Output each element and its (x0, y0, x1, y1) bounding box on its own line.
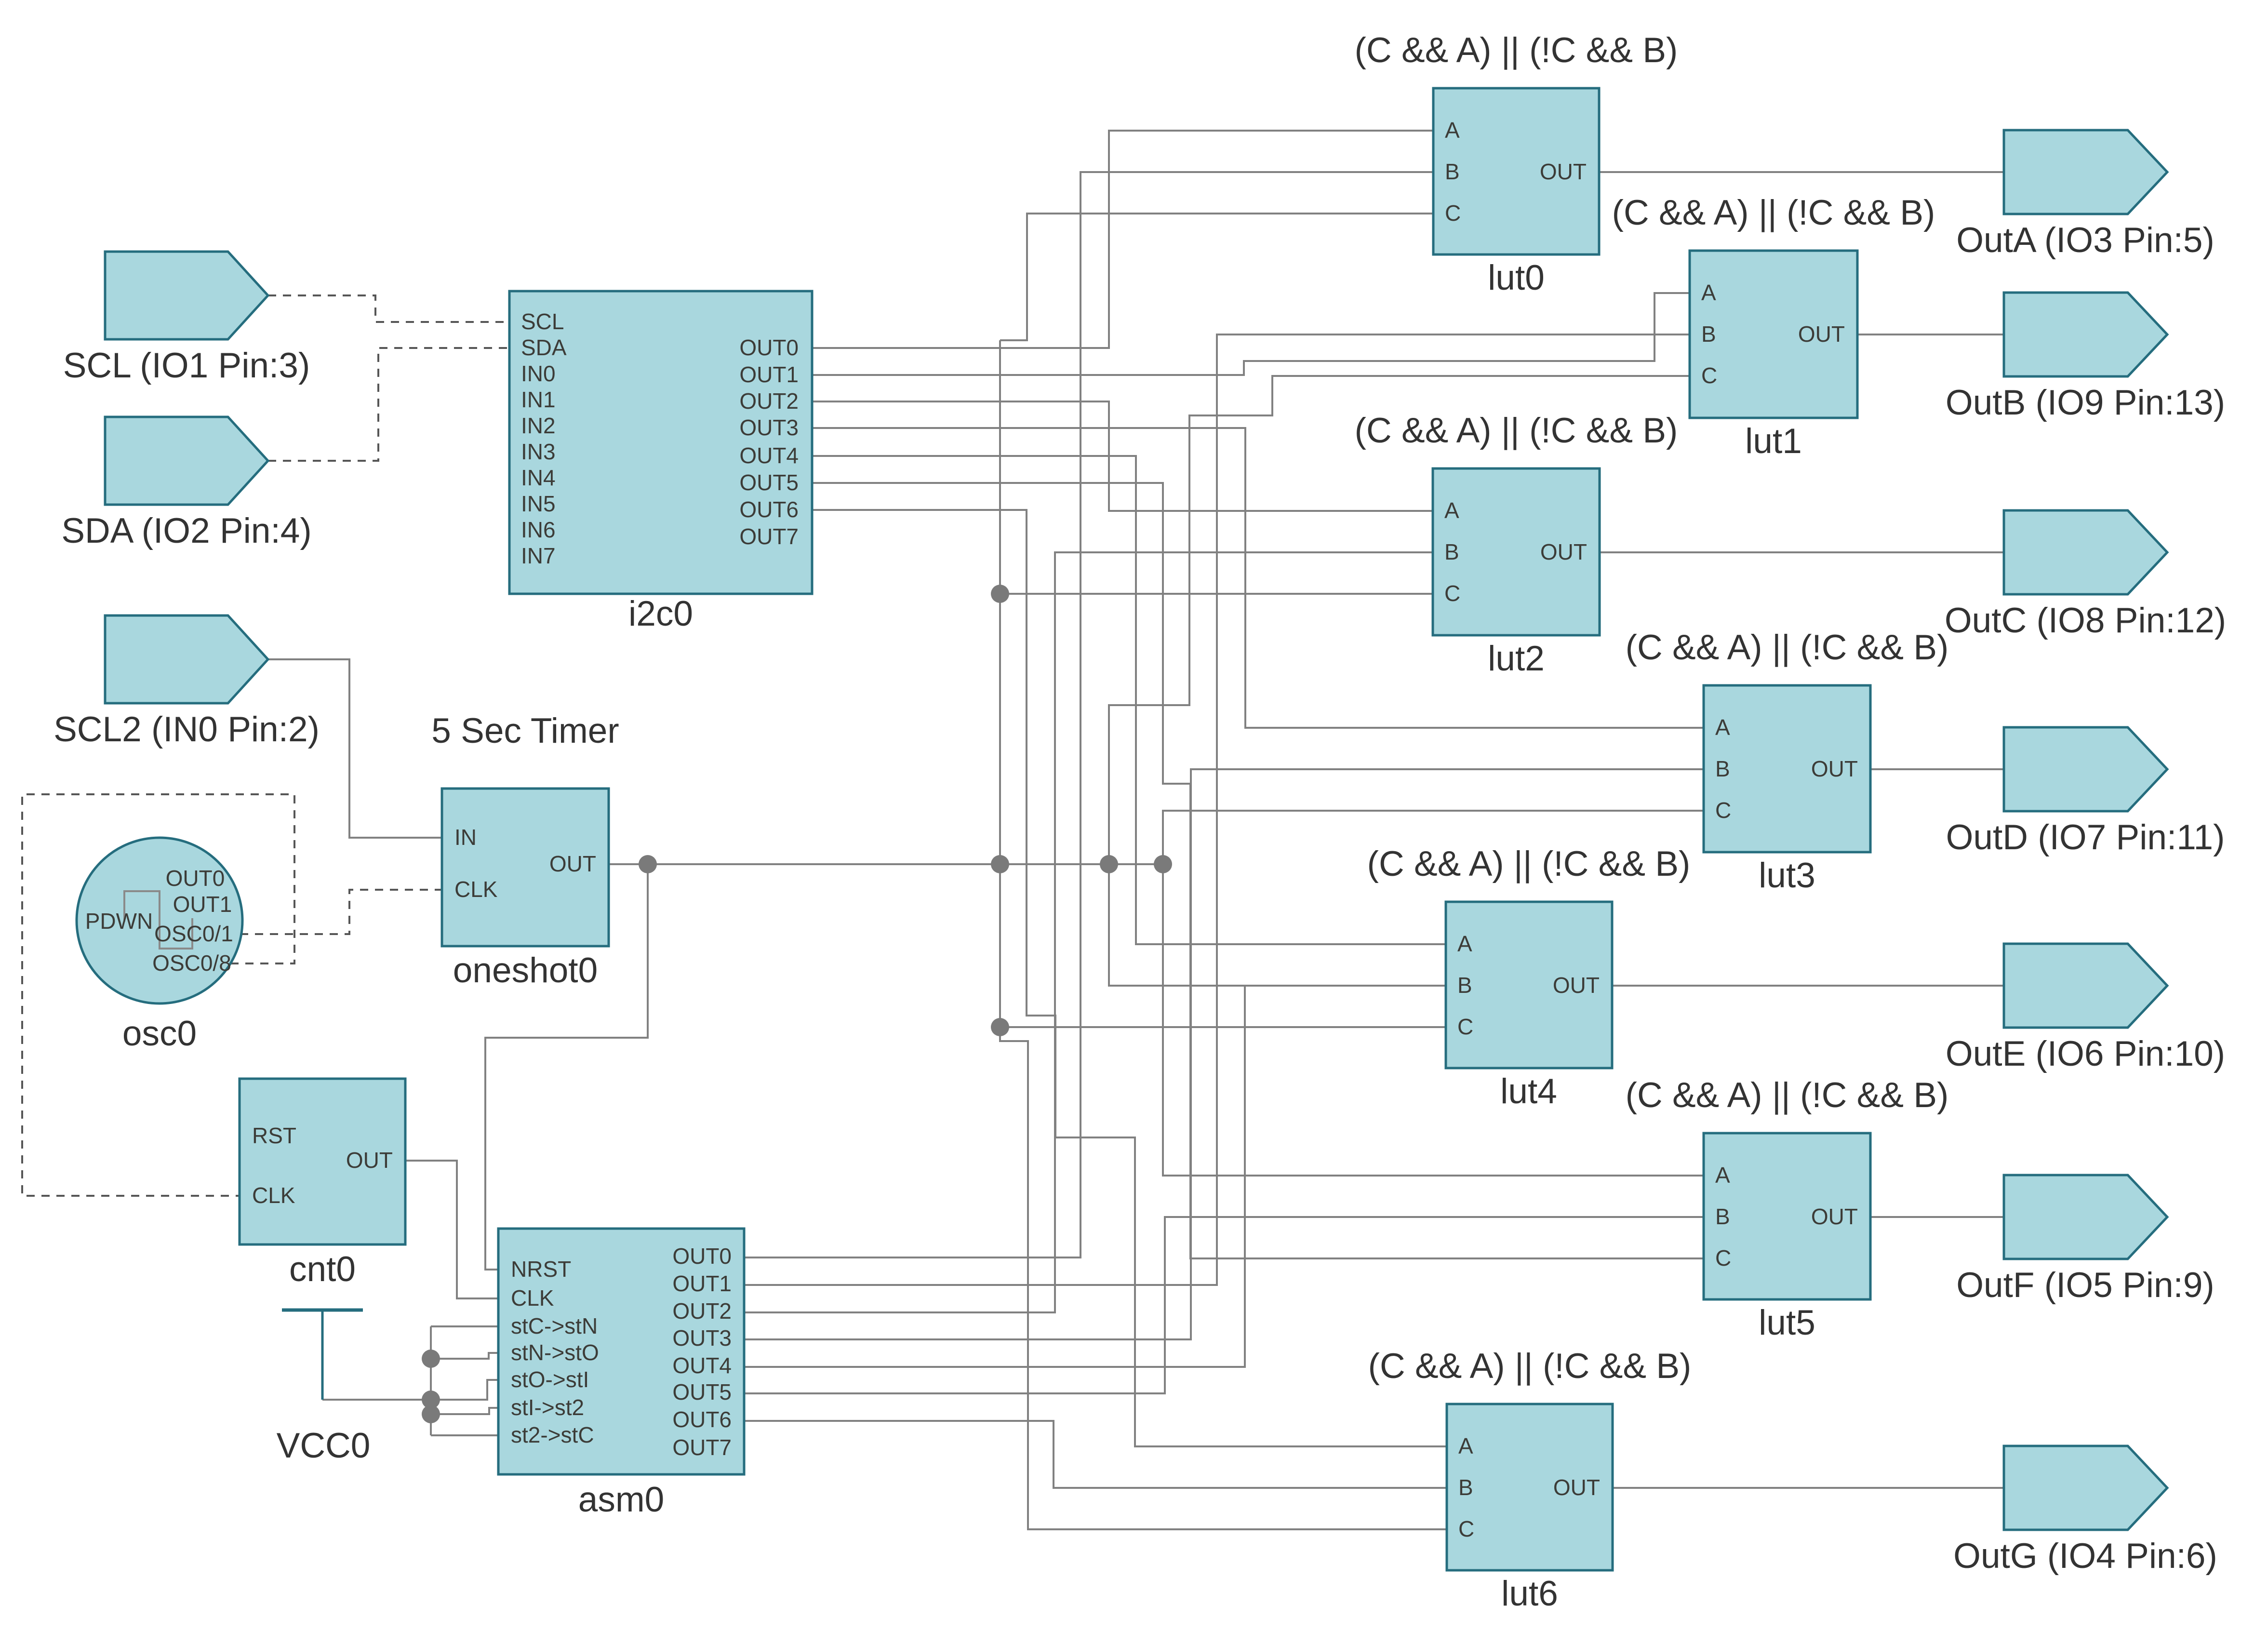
svg-text:SDA (IO2 Pin:4): SDA (IO2 Pin:4) (61, 511, 311, 550)
svg-text:OSC0/1: OSC0/1 (154, 921, 233, 946)
svg-text:OUT0: OUT0 (166, 866, 225, 891)
svg-text:B: B (1701, 321, 1716, 347)
svg-text:C: C (1715, 1245, 1731, 1271)
svg-text:OUT5: OUT5 (672, 1379, 732, 1404)
svg-text:OUT: OUT (1811, 756, 1858, 781)
svg-text:SDA: SDA (521, 335, 567, 360)
svg-text:lut3: lut3 (1759, 856, 1815, 895)
svg-text:B: B (1457, 973, 1472, 998)
svg-text:IN: IN (454, 825, 477, 850)
svg-text:OutG (IO4 Pin:6): OutG (IO4 Pin:6) (1953, 1537, 2217, 1576)
svg-text:OutB (IO9 Pin:13): OutB (IO9 Pin:13) (1946, 383, 2225, 422)
svg-text:(C && A) || (!C && B): (C && A) || (!C && B) (1355, 411, 1678, 450)
svg-text:OUT6: OUT6 (739, 497, 799, 522)
svg-text:OUT1: OUT1 (672, 1271, 732, 1296)
svg-text:OUT4: OUT4 (739, 443, 799, 468)
svg-text:cnt0: cnt0 (289, 1250, 356, 1289)
svg-text:IN5: IN5 (521, 491, 556, 516)
svg-text:OUT2: OUT2 (672, 1298, 732, 1324)
svg-text:stO->stI: stO->stI (511, 1367, 589, 1392)
svg-text:B: B (1445, 159, 1460, 184)
svg-text:OUT: OUT (1798, 321, 1845, 347)
svg-text:asm0: asm0 (578, 1480, 665, 1519)
svg-text:lut6: lut6 (1501, 1574, 1558, 1613)
svg-text:B: B (1715, 756, 1730, 781)
svg-text:lut4: lut4 (1500, 1072, 1557, 1111)
svg-text:lut1: lut1 (1745, 422, 1802, 461)
svg-text:IN3: IN3 (521, 439, 556, 464)
svg-text:OUT1: OUT1 (739, 362, 799, 387)
svg-text:B: B (1715, 1204, 1730, 1229)
svg-text:CLK: CLK (252, 1183, 295, 1208)
svg-text:OUT: OUT (1540, 539, 1587, 564)
svg-text:C: C (1457, 1014, 1473, 1039)
svg-text:i2c0: i2c0 (628, 594, 693, 633)
svg-text:SCL: SCL (521, 309, 564, 334)
svg-text:A: A (1715, 1163, 1730, 1188)
svg-text:(C && A) || (!C && B): (C && A) || (!C && B) (1368, 1347, 1692, 1386)
svg-text:CLK: CLK (454, 877, 498, 902)
svg-text:OUT7: OUT7 (739, 524, 799, 549)
svg-text:A: A (1444, 498, 1459, 523)
svg-text:VCC0: VCC0 (277, 1426, 371, 1465)
svg-text:B: B (1444, 539, 1459, 564)
svg-text:OUT: OUT (1553, 973, 1600, 998)
svg-text:C: C (1444, 581, 1460, 606)
svg-text:OutC (IO8 Pin:12): OutC (IO8 Pin:12) (1945, 601, 2226, 640)
svg-text:OUT: OUT (1811, 1204, 1858, 1229)
svg-text:oneshot0: oneshot0 (453, 951, 598, 990)
svg-text:CLK: CLK (511, 1285, 554, 1311)
svg-text:C: C (1445, 201, 1461, 226)
svg-text:PDWN: PDWN (85, 909, 153, 934)
svg-text:NRST: NRST (511, 1257, 571, 1282)
svg-text:OUT0: OUT0 (739, 335, 799, 360)
svg-text:IN1: IN1 (521, 387, 556, 412)
svg-text:(C && A) || (!C && B): (C && A) || (!C && B) (1355, 31, 1678, 70)
svg-text:C: C (1458, 1516, 1474, 1541)
svg-text:SCL (IO1 Pin:3): SCL (IO1 Pin:3) (63, 346, 310, 385)
svg-text:IN7: IN7 (521, 543, 556, 568)
svg-text:st2->stC: st2->stC (511, 1422, 594, 1447)
svg-text:IN4: IN4 (521, 465, 556, 490)
svg-text:(C && A) || (!C && B): (C && A) || (!C && B) (1626, 628, 1949, 667)
svg-text:OUT2: OUT2 (739, 388, 799, 414)
svg-text:OUT6: OUT6 (672, 1407, 732, 1432)
svg-text:OUT5: OUT5 (739, 470, 799, 495)
svg-text:OSC0/8: OSC0/8 (152, 950, 231, 976)
svg-text:OUT0: OUT0 (672, 1244, 732, 1269)
svg-text:IN6: IN6 (521, 517, 556, 542)
svg-text:stN->stO: stN->stO (511, 1340, 599, 1365)
svg-text:lut2: lut2 (1488, 639, 1545, 678)
svg-text:(C && A) || (!C && B): (C && A) || (!C && B) (1367, 844, 1691, 883)
svg-text:OutE (IO6 Pin:10): OutE (IO6 Pin:10) (1946, 1034, 2225, 1073)
svg-text:A: A (1445, 118, 1460, 143)
svg-text:OutD (IO7 Pin:11): OutD (IO7 Pin:11) (1946, 818, 2225, 857)
svg-text:lut0: lut0 (1488, 258, 1545, 297)
svg-text:OUT1: OUT1 (173, 892, 232, 917)
svg-text:OUT3: OUT3 (739, 415, 799, 440)
svg-text:OUT: OUT (549, 851, 596, 876)
svg-text:A: A (1457, 931, 1472, 956)
svg-text:A: A (1701, 280, 1716, 305)
svg-text:OUT3: OUT3 (672, 1325, 732, 1351)
svg-text:stI->st2: stI->st2 (511, 1395, 584, 1420)
svg-text:OUT: OUT (1540, 159, 1587, 184)
svg-text:C: C (1701, 363, 1717, 388)
svg-text:OUT: OUT (1553, 1475, 1600, 1500)
svg-text:SCL2 (IN0 Pin:2): SCL2 (IN0 Pin:2) (53, 710, 320, 749)
svg-text:(C && A) || (!C && B): (C && A) || (!C && B) (1626, 1076, 1949, 1115)
svg-text:RST: RST (252, 1123, 296, 1148)
svg-text:OutF (IO5 Pin:9): OutF (IO5 Pin:9) (1956, 1266, 2215, 1305)
svg-text:stC->stN: stC->stN (511, 1313, 598, 1338)
svg-text:osc0: osc0 (122, 1014, 197, 1053)
svg-text:lut5: lut5 (1759, 1303, 1815, 1342)
svg-text:OUT4: OUT4 (672, 1353, 732, 1378)
svg-text:A: A (1715, 715, 1730, 740)
svg-text:(C && A) || (!C && B): (C && A) || (!C && B) (1612, 193, 1935, 232)
svg-text:IN0: IN0 (521, 361, 556, 386)
svg-text:IN2: IN2 (521, 413, 556, 438)
svg-text:C: C (1715, 798, 1731, 823)
svg-text:OUT7: OUT7 (672, 1435, 732, 1460)
svg-text:5 Sec Timer: 5 Sec Timer (431, 711, 619, 750)
svg-text:A: A (1458, 1433, 1473, 1458)
svg-text:OutA (IO3 Pin:5): OutA (IO3 Pin:5) (1956, 221, 2215, 260)
svg-text:B: B (1458, 1475, 1473, 1500)
svg-text:OUT: OUT (346, 1148, 393, 1173)
